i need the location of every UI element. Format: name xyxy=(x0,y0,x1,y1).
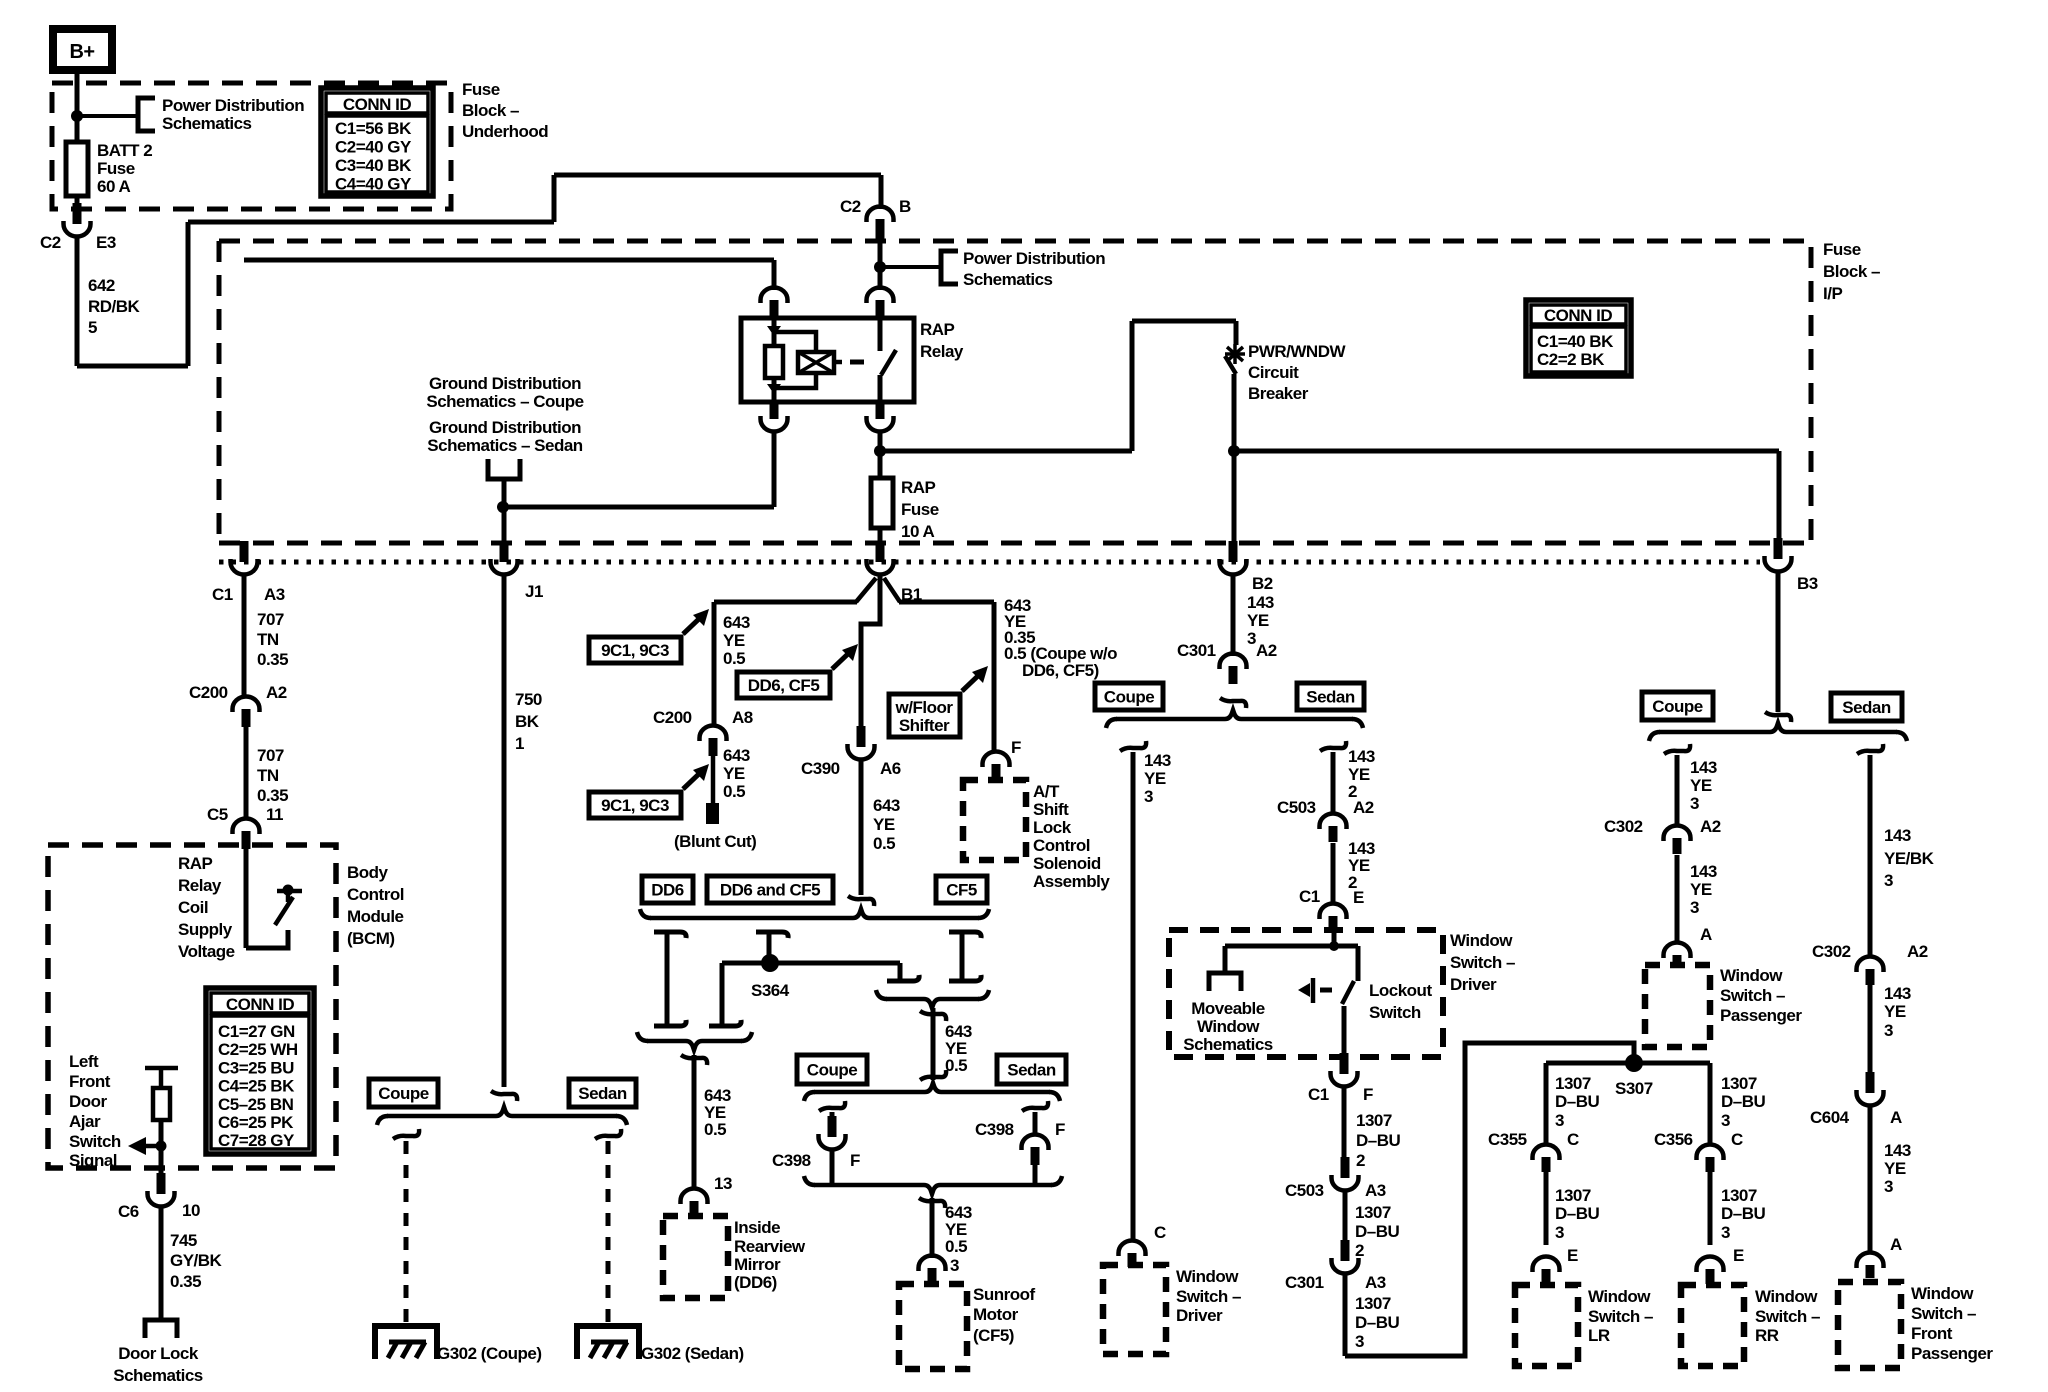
svg-text:Front: Front xyxy=(69,1072,111,1091)
window switch LR dashed box xyxy=(1515,1285,1578,1366)
svg-text:Window: Window xyxy=(1450,931,1513,950)
svg-text:Schematics: Schematics xyxy=(113,1366,203,1385)
connector mirror pin 13 xyxy=(690,1201,699,1217)
junction on B+ feed xyxy=(71,110,83,122)
svg-text:I/P: I/P xyxy=(1823,284,1842,303)
option box coupe ground xyxy=(369,1079,438,1107)
fuse block IP bottom dashed edge xyxy=(219,541,1811,546)
svg-text:B: B xyxy=(899,197,911,216)
svg-text:Window: Window xyxy=(1588,1287,1651,1306)
svg-text:3: 3 xyxy=(1721,1111,1730,1130)
svg-text:Solenoid: Solenoid xyxy=(1033,854,1101,873)
svg-text:E3: E3 xyxy=(96,233,116,252)
wire brace to mirror xyxy=(681,1055,707,1065)
svg-text:0.5: 0.5 xyxy=(945,1237,967,1256)
svg-text:DD6, CF5): DD6, CF5) xyxy=(1022,661,1099,680)
svg-text:1307: 1307 xyxy=(1355,1203,1391,1222)
svg-text:Coupe: Coupe xyxy=(1104,688,1154,707)
connector C6 pin 10 xyxy=(157,1173,166,1194)
connector C398 F sedan xyxy=(1031,1147,1040,1165)
svg-text:143: 143 xyxy=(1144,751,1171,770)
svg-text:0.5: 0.5 xyxy=(873,834,895,853)
S307 horizontal wire xyxy=(1546,1061,1710,1066)
wire 1307 D-BU 2 xyxy=(1342,1086,1347,1162)
wire E3 run to fuse block IP xyxy=(77,364,188,369)
connector E RR switch xyxy=(1706,1269,1715,1284)
svg-text:C1: C1 xyxy=(1308,1085,1329,1104)
svg-text:CONN ID: CONN ID xyxy=(1544,306,1613,325)
door ajar pull-up bar xyxy=(145,1066,178,1071)
svg-text:643: 643 xyxy=(723,746,750,765)
svg-text:Schematics – Coupe: Schematics – Coupe xyxy=(426,392,583,411)
svg-text:YE: YE xyxy=(1247,611,1269,630)
connector J1 xyxy=(500,541,509,562)
power distribution schematics reference fork right xyxy=(941,251,958,284)
svg-text:Rearview: Rearview xyxy=(734,1237,806,1256)
svg-text:A2: A2 xyxy=(1353,798,1374,817)
svg-text:D–BU: D–BU xyxy=(1721,1092,1766,1111)
svg-text:Sedan: Sedan xyxy=(1306,688,1355,707)
collector brace sunroof motor xyxy=(804,1176,815,1185)
curl sedan ground drop xyxy=(595,1129,621,1139)
PWR/WNDW circuit breaker xyxy=(1234,321,1239,345)
svg-text:2: 2 xyxy=(1355,1241,1364,1260)
svg-text:1307: 1307 xyxy=(1355,1294,1391,1313)
svg-text:A3: A3 xyxy=(1365,1181,1386,1200)
svg-text:C398: C398 xyxy=(975,1120,1014,1139)
svg-text:Relay: Relay xyxy=(920,342,964,361)
svg-text:750: 750 xyxy=(515,690,542,709)
connector A front passenger switch xyxy=(1866,1265,1875,1278)
svg-text:Block –: Block – xyxy=(1823,262,1880,281)
svg-text:A3: A3 xyxy=(1365,1273,1386,1292)
svg-text:C302: C302 xyxy=(1604,817,1643,836)
svg-text:C1=27 GN: C1=27 GN xyxy=(218,1022,295,1041)
splice distribution brace DD6 CF5 xyxy=(640,909,651,918)
wire C2 B down to junction xyxy=(878,231,883,290)
svg-text:Switch –: Switch – xyxy=(1755,1307,1820,1326)
svg-text:Sunroof: Sunroof xyxy=(973,1285,1035,1304)
hidden wire to G302 coupe xyxy=(404,1141,409,1326)
svg-text:1307: 1307 xyxy=(1555,1186,1591,1205)
svg-text:C200: C200 xyxy=(653,708,692,727)
option box DD6 and CF5 xyxy=(707,876,833,903)
svg-text:643: 643 xyxy=(723,613,750,632)
svg-text:3: 3 xyxy=(1144,787,1153,806)
arrow 9C1 9C3 lower xyxy=(683,770,703,789)
svg-text:C5–25 BN: C5–25 BN xyxy=(218,1095,294,1114)
B1 left branch wire xyxy=(714,600,857,605)
svg-text:0.35: 0.35 xyxy=(257,786,288,805)
relay pin connector top left xyxy=(770,300,779,318)
svg-text:Control: Control xyxy=(347,885,404,904)
svg-text:13: 13 xyxy=(714,1174,732,1193)
svg-text:Ground Distribution: Ground Distribution xyxy=(429,374,581,393)
svg-text:3: 3 xyxy=(1555,1223,1564,1242)
wire breaker down to B2 xyxy=(1232,374,1237,545)
svg-text:Voltage: Voltage xyxy=(178,942,235,961)
junction at B feed xyxy=(874,261,886,273)
svg-text:C5: C5 xyxy=(207,805,228,824)
svg-text:DD6 and CF5: DD6 and CF5 xyxy=(720,881,820,900)
connector E LR switch xyxy=(1542,1269,1551,1284)
svg-text:RAP: RAP xyxy=(178,854,213,873)
coupe passenger drop xyxy=(1664,744,1690,754)
svg-text:Supply: Supply xyxy=(178,920,233,939)
option box sedan ground xyxy=(569,1079,636,1107)
svg-text:3: 3 xyxy=(1690,794,1699,813)
wire 1307 D-BU 3 to S307 xyxy=(1343,1273,1348,1356)
wire 707 TN from C1 A3 xyxy=(242,575,247,697)
svg-text:F: F xyxy=(1363,1085,1373,1104)
svg-text:0.5: 0.5 xyxy=(704,1120,726,1139)
svg-text:5: 5 xyxy=(88,318,97,337)
svg-text:S307: S307 xyxy=(1615,1079,1653,1098)
svg-text:RAP: RAP xyxy=(920,320,955,339)
svg-text:RR: RR xyxy=(1755,1326,1779,1345)
svg-text:Door: Door xyxy=(69,1092,108,1111)
drop CF5 leg xyxy=(949,932,981,938)
window switch RR dashed box xyxy=(1681,1285,1744,1366)
svg-text:60 A: 60 A xyxy=(97,177,131,196)
lockout switch actuator arrow xyxy=(1298,983,1310,997)
svg-text:YE: YE xyxy=(723,631,745,650)
wire top feed to C2 B xyxy=(554,173,881,178)
svg-text:1307: 1307 xyxy=(1356,1111,1392,1130)
svg-text:11: 11 xyxy=(266,805,283,824)
svg-text:A: A xyxy=(1890,1108,1902,1127)
relay solenoid coil symbol xyxy=(798,352,834,373)
svg-text:C3=25 BU: C3=25 BU xyxy=(218,1058,294,1077)
arrow DD6 CF5 xyxy=(832,650,852,669)
conn id table IP xyxy=(1526,300,1631,376)
svg-text:Ajar: Ajar xyxy=(69,1112,101,1131)
svg-text:YE: YE xyxy=(1690,776,1712,795)
wire C302 to passenger switch xyxy=(1675,855,1680,941)
RAP relay box xyxy=(741,318,914,402)
door lock schematics reference fork xyxy=(145,1320,177,1338)
sedan driver drop xyxy=(1320,741,1346,751)
svg-text:3: 3 xyxy=(1884,1177,1893,1196)
svg-text:0.5: 0.5 xyxy=(945,1056,967,1075)
svg-text:Passenger: Passenger xyxy=(1911,1344,1993,1363)
svg-text:Switch: Switch xyxy=(69,1132,121,1151)
svg-text:143: 143 xyxy=(1247,593,1274,612)
svg-text:C6=25 PK: C6=25 PK xyxy=(218,1113,294,1132)
svg-text:GY/BK: GY/BK xyxy=(170,1251,223,1270)
power distribution schematics reference fork xyxy=(138,98,155,131)
svg-text:Sedan: Sedan xyxy=(578,1084,627,1103)
svg-text:Switch –: Switch – xyxy=(1450,953,1515,972)
svg-text:C301: C301 xyxy=(1285,1273,1324,1292)
option box coupe sunroof xyxy=(797,1055,867,1084)
svg-text:Passenger: Passenger xyxy=(1720,1006,1802,1025)
window switch front passenger dashed box xyxy=(1838,1282,1901,1368)
svg-text:YE/BK: YE/BK xyxy=(1884,849,1935,868)
svg-text:2: 2 xyxy=(1356,1151,1365,1170)
svg-text:Window: Window xyxy=(1911,1284,1974,1303)
relay actuation dash xyxy=(850,360,864,365)
label 643 YE 0.5 at C390 xyxy=(859,759,864,895)
svg-text:PWR/WNDW: PWR/WNDW xyxy=(1248,342,1346,361)
svg-text:C390: C390 xyxy=(801,759,840,778)
svg-text:CF5: CF5 xyxy=(946,881,977,900)
curl at J1 ground split xyxy=(491,1091,517,1101)
instrument panel dotted boundary xyxy=(219,560,1760,565)
svg-text:1307: 1307 xyxy=(1721,1186,1757,1205)
wire to power distribution reference xyxy=(77,114,137,118)
svg-text:Switch –: Switch – xyxy=(1720,986,1785,1005)
wire brace to coupe sedan split xyxy=(920,1011,946,1021)
svg-text:Lock: Lock xyxy=(1033,818,1072,837)
svg-text:9C1, 9C3: 9C1, 9C3 xyxy=(601,796,669,815)
junction RAP feed xyxy=(874,445,886,457)
svg-text:C: C xyxy=(1567,1130,1579,1149)
svg-text:Signal: Signal xyxy=(69,1151,117,1170)
relay switch blade xyxy=(878,318,883,351)
connector C390 A6 xyxy=(857,726,866,747)
S364 horizontal wire xyxy=(722,961,900,966)
svg-text:C1: C1 xyxy=(1299,887,1320,906)
wire B3 down xyxy=(1776,572,1781,712)
lockout switch blade xyxy=(1342,981,1354,1004)
svg-text:143: 143 xyxy=(1690,862,1717,881)
relay pin connector bottom right xyxy=(876,400,885,419)
option box sedan driver xyxy=(1297,683,1364,710)
svg-text:143: 143 xyxy=(1690,758,1717,777)
relay coil loop wire xyxy=(776,332,816,352)
svg-text:3: 3 xyxy=(1721,1223,1730,1242)
svg-text:Fuse: Fuse xyxy=(97,159,135,178)
connector C503 A3 xyxy=(1341,1157,1350,1178)
svg-text:Coupe: Coupe xyxy=(378,1084,428,1103)
curl coupe ground drop xyxy=(393,1129,419,1139)
splice S364 xyxy=(761,954,779,972)
svg-text:(Blunt Cut): (Blunt Cut) xyxy=(674,832,756,851)
curl B2 split feed xyxy=(1220,698,1246,708)
junction ground distribution xyxy=(497,501,509,513)
wire coil feed from left xyxy=(244,258,774,263)
connector C356 C xyxy=(1706,1157,1715,1172)
svg-text:643: 643 xyxy=(873,796,900,815)
fuse block IP dashed box xyxy=(219,241,1811,543)
collector brace DD6 mirror xyxy=(637,1032,648,1041)
svg-text:Fuse: Fuse xyxy=(901,500,939,519)
svg-text:Underhood: Underhood xyxy=(462,122,548,141)
connector C302 A2 sedan xyxy=(1866,969,1875,985)
svg-text:A2: A2 xyxy=(266,683,287,702)
option box CF5 xyxy=(936,876,987,903)
wire to power distribution reference right xyxy=(880,265,939,269)
svg-text:Control: Control xyxy=(1033,836,1090,855)
svg-text:C6: C6 xyxy=(118,1202,139,1221)
svg-text:YE: YE xyxy=(723,764,745,783)
svg-text:Door Lock: Door Lock xyxy=(118,1344,199,1363)
reference box w/Floor Shifter xyxy=(889,694,960,737)
svg-text:YE: YE xyxy=(1884,1159,1906,1178)
svg-text:C200: C200 xyxy=(189,683,228,702)
svg-text:3: 3 xyxy=(1247,629,1256,648)
svg-text:G302 (Coupe): G302 (Coupe) xyxy=(437,1344,542,1363)
svg-text:RD/BK: RD/BK xyxy=(88,297,141,316)
svg-text:B2: B2 xyxy=(1252,574,1273,593)
svg-text:1307: 1307 xyxy=(1555,1074,1591,1093)
svg-text:3: 3 xyxy=(950,1256,959,1275)
wire to sunroof motor xyxy=(919,1198,945,1208)
svg-text:Module: Module xyxy=(347,907,404,926)
wire lockout to C1 F xyxy=(1342,1006,1347,1057)
svg-text:Coil: Coil xyxy=(178,898,208,917)
coupe sedan ground split brace xyxy=(377,1116,388,1125)
window switch driver power dashed box xyxy=(1103,1265,1166,1354)
coupe C398 drop xyxy=(819,1101,845,1111)
svg-text:C1: C1 xyxy=(212,585,233,604)
blunt cut terminal xyxy=(706,803,719,824)
svg-text:Shifter: Shifter xyxy=(899,716,950,735)
svg-text:143: 143 xyxy=(1884,984,1911,1003)
svg-text:707: 707 xyxy=(257,746,284,765)
svg-text:Fuse: Fuse xyxy=(462,80,500,99)
svg-text:Inside: Inside xyxy=(734,1218,780,1237)
svg-text:1307: 1307 xyxy=(1721,1074,1757,1093)
connector C2 E3 at underhood fuse block xyxy=(73,203,82,224)
svg-text:Schematics: Schematics xyxy=(963,270,1053,289)
reference box 9C1 9C3 upper xyxy=(589,637,681,663)
curl B3 split feed xyxy=(1765,712,1791,722)
wire junction to circuit breaker riser xyxy=(880,449,1132,454)
ground G302 coupe xyxy=(375,1326,437,1359)
wire 1307 D-BU 3 to RR switch xyxy=(1708,1172,1713,1245)
connector C398 F coupe xyxy=(828,1116,837,1137)
svg-text:C355: C355 xyxy=(1488,1130,1527,1149)
coupe driver drop xyxy=(1120,741,1146,751)
svg-text:E: E xyxy=(1353,888,1364,907)
B1 center branch to C390 xyxy=(861,576,880,731)
svg-text:Mirror: Mirror xyxy=(734,1255,781,1274)
moveable window schematics fork xyxy=(1223,946,1228,973)
svg-text:A/T: A/T xyxy=(1033,782,1060,801)
wire relay switch out to junction xyxy=(878,431,883,450)
svg-text:C356: C356 xyxy=(1654,1130,1693,1149)
wire fork to junction xyxy=(502,479,507,507)
svg-text:A6: A6 xyxy=(880,759,901,778)
arrow w/Floor Shifter xyxy=(962,672,982,691)
svg-text:Driver: Driver xyxy=(1450,975,1497,994)
svg-text:D–BU: D–BU xyxy=(1355,1313,1400,1332)
wire B+ to BATT 2 fuse xyxy=(75,70,80,142)
svg-text:A2: A2 xyxy=(1907,942,1928,961)
svg-text:C1=40 BK: C1=40 BK xyxy=(1537,332,1614,351)
connector F at shift lock solenoid xyxy=(992,764,1001,780)
svg-text:Sedan: Sedan xyxy=(1007,1061,1056,1080)
wire 707 TN to BCM xyxy=(244,727,249,819)
svg-text:Power Distribution: Power Distribution xyxy=(162,96,304,115)
curl C390 split feed xyxy=(848,896,874,906)
svg-text:A: A xyxy=(1890,1235,1902,1254)
svg-text:Power Distribution: Power Distribution xyxy=(963,249,1105,268)
svg-text:C: C xyxy=(1731,1130,1743,1149)
wire 750 BK from J1 xyxy=(502,575,507,1087)
wire S307 to C355 xyxy=(1544,1063,1549,1145)
wire C302 sedan to C604 xyxy=(1868,984,1873,1080)
svg-text:LR: LR xyxy=(1588,1326,1610,1345)
svg-text:G302 (Sedan): G302 (Sedan) xyxy=(641,1344,744,1363)
wire B2 to C301 xyxy=(1231,574,1236,656)
svg-text:(CF5): (CF5) xyxy=(973,1326,1014,1345)
svg-text:YE: YE xyxy=(1884,1002,1906,1021)
arrow 9C1 9C3 upper xyxy=(683,615,703,634)
svg-text:Relay: Relay xyxy=(178,876,222,895)
inside rearview mirror dashed box xyxy=(663,1216,728,1298)
svg-text:D–BU: D–BU xyxy=(1355,1222,1400,1241)
wire 1307 D-BU 3 to LR switch xyxy=(1544,1172,1549,1245)
svg-text:Moveable: Moveable xyxy=(1191,999,1265,1018)
svg-text:Body: Body xyxy=(347,863,389,882)
svg-text:Assembly: Assembly xyxy=(1033,872,1110,891)
door ajar resistor xyxy=(159,1068,164,1088)
svg-text:C398: C398 xyxy=(772,1151,811,1170)
svg-text:A: A xyxy=(1700,925,1712,944)
option box sedan passenger xyxy=(1831,693,1902,721)
svg-text:S364: S364 xyxy=(751,981,790,1000)
svg-text:YE: YE xyxy=(1144,769,1166,788)
svg-text:A3: A3 xyxy=(264,585,285,604)
lockout switch fixed contact xyxy=(1356,946,1361,981)
wire C604 to front passenger switch xyxy=(1868,1105,1873,1252)
window switch driver dashed box with lockout xyxy=(1169,930,1443,1057)
svg-text:D–BU: D–BU xyxy=(1356,1131,1401,1150)
connector C503 A2 xyxy=(1329,826,1338,842)
connector sunroof motor pin 3 xyxy=(928,1268,937,1284)
svg-text:Ground Distribution: Ground Distribution xyxy=(429,418,581,437)
svg-text:Shift: Shift xyxy=(1033,800,1069,819)
svg-text:10 A: 10 A xyxy=(901,522,935,541)
option box coupe passenger xyxy=(1642,692,1713,720)
svg-text:Switch –: Switch – xyxy=(1588,1307,1653,1326)
svg-text:C2=2 BK: C2=2 BK xyxy=(1537,350,1605,369)
svg-text:Front: Front xyxy=(1911,1324,1953,1343)
svg-text:Block –: Block – xyxy=(462,101,519,120)
reference box DD6 CF5 xyxy=(737,672,830,698)
svg-text:A2: A2 xyxy=(1700,817,1721,836)
drop DD6 leg xyxy=(654,932,686,938)
wire C503 to C1 xyxy=(1331,843,1336,904)
wire into lockout switch xyxy=(1332,931,1337,946)
svg-text:A2: A2 xyxy=(1256,641,1277,660)
svg-text:642: 642 xyxy=(88,276,115,295)
wire RAP fuse to B1 xyxy=(878,528,883,545)
svg-text:F: F xyxy=(1011,738,1021,757)
svg-text:Schematics – Sedan: Schematics – Sedan xyxy=(427,436,583,455)
svg-text:1: 1 xyxy=(515,734,524,753)
svg-text:3: 3 xyxy=(1355,1332,1364,1351)
svg-text:Coupe: Coupe xyxy=(807,1061,857,1080)
option box DD6 xyxy=(642,876,693,903)
svg-text:3: 3 xyxy=(1555,1111,1564,1130)
fuse BATT 2 60A xyxy=(66,142,88,196)
svg-text:0.35: 0.35 xyxy=(257,650,288,669)
svg-text:D–BU: D–BU xyxy=(1555,1092,1600,1111)
svg-text:C4=25 BK: C4=25 BK xyxy=(218,1077,295,1096)
sedan passenger drop xyxy=(1857,744,1883,754)
svg-text:F: F xyxy=(850,1151,860,1170)
wire junction down to J1 xyxy=(502,507,507,545)
svg-text:Sedan: Sedan xyxy=(1842,698,1891,717)
svg-text:Switch –: Switch – xyxy=(1911,1304,1976,1323)
svg-text:3: 3 xyxy=(1884,871,1893,890)
svg-text:YE: YE xyxy=(1690,880,1712,899)
svg-text:143: 143 xyxy=(1884,1141,1911,1160)
